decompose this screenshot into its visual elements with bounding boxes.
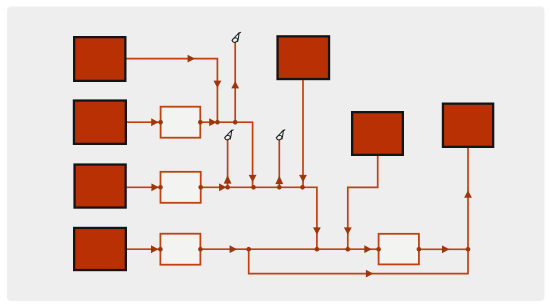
junction J5 (d3 branch) <box>277 185 282 190</box>
label d2 <box>224 130 233 141</box>
arrow up to d3 <box>275 176 283 185</box>
wire: J2 up to label d1 <box>234 42 236 122</box>
arrow down from B6 into row4 <box>344 227 352 234</box>
junction J1 <box>215 120 220 125</box>
white box W2 <box>161 172 201 203</box>
white box W4 <box>379 234 419 265</box>
arrow right into W2 <box>151 183 158 191</box>
port dot W4 out <box>417 247 422 252</box>
junction J4 (row2 drop) <box>251 185 256 190</box>
port dot W4 in <box>376 247 381 252</box>
port dot W3 out <box>198 247 203 252</box>
port dot W2 in <box>158 185 163 190</box>
white box W1 <box>161 107 201 138</box>
junction J9 <box>466 247 471 252</box>
arrow up to d1 <box>231 81 239 88</box>
wire: row3 junction up to label d3 <box>278 140 280 187</box>
wire: box W4 output to junction J9 <box>419 248 468 250</box>
wire: block B6 output down, left, down to row4 <box>348 156 378 249</box>
block B7 <box>443 104 493 147</box>
arrow right after W3 <box>230 245 237 253</box>
junction J6 (B5 drop) <box>300 185 305 190</box>
wire: block B4 output to box W3 input <box>127 248 160 250</box>
block B4 <box>74 228 126 270</box>
wire: box W2 output along row3, elbow down to row4 <box>201 187 317 249</box>
arrow down row3 elbow into row4 <box>313 227 321 234</box>
label d1 <box>232 32 241 43</box>
wire: block B3 output to box W2 input <box>127 186 161 188</box>
arrow up to d2 <box>224 175 232 184</box>
junction J8b (B6 drop) <box>346 247 351 252</box>
wire: bottom feedback line <box>249 249 468 273</box>
arrow right after W4 <box>442 245 449 253</box>
junction J7 (feedback split) <box>246 247 251 252</box>
arrow right after W1 <box>209 118 216 126</box>
port dot W1 in <box>158 120 163 125</box>
arrow right on B1 output <box>188 55 195 63</box>
port dot W1 out <box>198 120 203 125</box>
block B1 <box>74 37 125 81</box>
junction J2 <box>233 120 238 125</box>
arrow right on bottom feedback line <box>366 270 373 278</box>
block B3 <box>75 165 126 208</box>
white box W3 <box>160 234 200 265</box>
wire: block B1 output to junction J1 <box>127 59 218 123</box>
block B5 <box>278 36 330 79</box>
arrow down from row2 elbow <box>249 175 257 182</box>
wire: row3 junction up to label d2 <box>227 140 229 187</box>
arrow down from B5 <box>299 175 307 182</box>
arrow up into B7 <box>464 190 472 197</box>
block B6 <box>352 112 403 155</box>
port dot W3 in <box>158 247 163 252</box>
arrow right after W2 <box>219 183 226 191</box>
wire: box W1 output through J1, J2 down to row3 <box>200 122 252 187</box>
arrow down on J1 drop <box>214 81 222 88</box>
junction J8 (row3 drop) <box>315 247 320 252</box>
arrow right into W1 <box>151 118 158 126</box>
wire: junction J9 up to block B7 input <box>467 147 469 249</box>
wire: box W3 output along row4 to box W4 input <box>200 248 378 250</box>
arrow right into W4 <box>364 245 371 253</box>
block B2 <box>74 101 126 144</box>
port dot W2 out <box>198 185 203 190</box>
wire: block B5 output down to row3 <box>302 80 304 187</box>
label d3 <box>276 130 285 141</box>
wire: block B2 output to box W1 input <box>127 121 161 123</box>
junction J3 (d2 branch) <box>225 185 230 190</box>
arrow right into W3 <box>151 245 158 253</box>
